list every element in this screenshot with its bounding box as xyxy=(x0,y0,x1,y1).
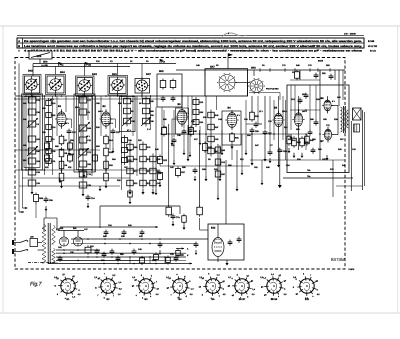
page bottom edge line xyxy=(0,312,400,314)
wire aerial drop xyxy=(32,64,34,77)
trim arrow stage1 xyxy=(27,118,38,128)
wire v237 xyxy=(236,150,238,186)
wire supply risers xyxy=(129,257,131,264)
wire v156 xyxy=(155,107,157,190)
capacitor C44 xyxy=(193,169,198,171)
pentode B4 xyxy=(227,113,237,128)
svg-text:Les tensions sont mesurees au: Les tensions sont mesurees au voltmetre … xyxy=(24,45,362,48)
wire stage2 extra verticals xyxy=(80,96,82,150)
svg-text:140 V: 140 V xyxy=(98,110,104,113)
svg-text:s: s xyxy=(278,295,279,298)
resistor cluster RC3 xyxy=(152,154,154,189)
wire left drop rails xyxy=(18,190,20,212)
wire stage1 extra verticals xyxy=(28,96,30,170)
osc wires left xyxy=(191,96,193,130)
svg-text:50 c/s: 50 c/s xyxy=(370,50,377,53)
right top components xyxy=(314,74,319,76)
ground B1 column xyxy=(61,183,63,186)
ground cluster 2 xyxy=(142,189,144,192)
resistor R9 xyxy=(59,161,64,169)
resistor R10 xyxy=(59,173,64,181)
capacitor Ch2 xyxy=(122,231,127,233)
resistor R69 xyxy=(34,195,39,202)
wire B1 cathode xyxy=(61,158,63,172)
resistor R8 xyxy=(59,149,64,157)
wire B2 drop xyxy=(105,157,107,172)
svg-text:DK7: DK7 xyxy=(146,73,151,76)
stage 2 frame xyxy=(74,94,95,172)
capacitor C96 xyxy=(237,238,242,240)
power junction dots xyxy=(63,249,65,251)
trim arrow stage2 xyxy=(79,122,90,132)
power rails full xyxy=(56,252,186,254)
wire v162 xyxy=(161,107,163,160)
pentode B6 xyxy=(324,100,331,111)
svg-text:45 Ω 2W: 45 Ω 2W xyxy=(368,45,378,48)
wire stage1b verticals xyxy=(44,96,46,175)
tube base diagram B8 B9 xyxy=(267,279,281,293)
svg-text:SK9: SK9 xyxy=(37,55,42,58)
wire aerial bus lower xyxy=(33,66,130,68)
svg-text:P12a: P12a xyxy=(86,64,92,67)
wire htie 150 xyxy=(15,149,100,151)
svg-text:A: A xyxy=(18,40,20,43)
wire stage1 verticals xyxy=(25,96,27,170)
trim arrow L3a xyxy=(78,148,89,158)
resistor R7 xyxy=(59,136,64,144)
feedback network box xyxy=(287,85,349,173)
wire v242 xyxy=(241,134,243,170)
wire long vertical 4 xyxy=(225,160,227,224)
wire v333 drop xyxy=(332,160,334,197)
ground L1 lower xyxy=(31,189,33,192)
tube base diagram B4 xyxy=(173,279,187,293)
wire right rail drop xyxy=(350,121,352,191)
ground R5a xyxy=(183,225,185,228)
resistor R21 xyxy=(170,81,176,88)
resistor cluster RC2 xyxy=(142,142,144,189)
coil chain L1 xyxy=(31,94,33,167)
wire v252 xyxy=(251,96,253,112)
resistor R24 xyxy=(158,173,163,180)
wire B12 feed xyxy=(199,218,201,230)
resistor R27 xyxy=(176,169,181,176)
rotary switch SK6 wafer xyxy=(250,80,263,93)
stage 1 frame xyxy=(22,94,43,170)
ground C95b xyxy=(45,206,47,209)
svg-text:s: s xyxy=(150,295,151,298)
loudspeaker xyxy=(353,108,362,120)
ground R45 xyxy=(293,153,295,156)
wire fb inner xyxy=(290,85,292,110)
wire mid verticals xyxy=(121,96,123,190)
wire htie 110 right xyxy=(290,109,320,111)
IF can DK7 xyxy=(137,80,148,91)
triode B1 xyxy=(57,112,66,126)
flag pennant P2 xyxy=(228,53,233,57)
wire B12 top xyxy=(217,224,219,238)
svg-text:SK5: SK5 xyxy=(159,70,164,73)
capacitor C97 xyxy=(158,243,163,245)
power extra comps xyxy=(102,253,107,255)
resistor R66 xyxy=(85,247,91,253)
svg-text:BX735A: BX735A xyxy=(331,257,346,262)
flag P1a xyxy=(58,62,60,67)
wire osc verticals xyxy=(205,96,207,176)
resistor R5a xyxy=(182,216,187,223)
svg-text:s: s xyxy=(136,294,137,297)
tube base diagram B12 xyxy=(300,279,314,293)
wire can drops xyxy=(31,94,33,97)
output transformer primary xyxy=(341,107,343,132)
svg-text:250 V: 250 V xyxy=(75,106,81,109)
capacitor C12 xyxy=(67,130,72,132)
svg-text:s: s xyxy=(312,295,313,298)
resistor cluster RC1 xyxy=(129,142,131,189)
wire B5 down xyxy=(278,129,280,162)
IF can SK4 box xyxy=(47,76,64,93)
wire heater drop xyxy=(99,206,101,228)
resistor R36 xyxy=(203,144,208,151)
IF can DK7 box xyxy=(135,79,150,94)
svg-text:SK7: SK7 xyxy=(210,65,215,68)
mains plug xyxy=(12,240,14,245)
svg-text:B168: B168 xyxy=(318,60,324,63)
trim arrow can2 xyxy=(50,79,61,90)
capacitor C31 xyxy=(171,97,176,99)
wire long vertical 3 xyxy=(199,130,201,206)
tube base diagram B3 xyxy=(139,279,153,293)
svg-text:P1878: P1878 xyxy=(349,268,356,271)
svg-text:DK3: DK3 xyxy=(92,73,97,76)
svg-text:SK4: SK4 xyxy=(60,71,65,74)
ground R46 xyxy=(301,153,303,156)
svg-text:B 168: B 168 xyxy=(368,40,375,43)
svg-text:m: m xyxy=(54,284,56,287)
svg-text:DK1: DK1 xyxy=(112,73,117,76)
wire htie 170 xyxy=(15,169,160,171)
IF can DK3 xyxy=(79,80,91,92)
wire stage2 verticals xyxy=(78,96,80,172)
capacitor C91 xyxy=(110,250,115,252)
resistor R16 xyxy=(104,161,109,169)
resistor R15 xyxy=(104,148,109,156)
handwritten mark xyxy=(222,33,246,37)
ground cluster 1 xyxy=(129,189,131,192)
wire supply rail 2 xyxy=(56,256,186,258)
wire speaker right xyxy=(362,110,364,190)
wire supply rail 1 xyxy=(56,249,100,251)
coil chain L2 xyxy=(48,98,50,166)
wire B+ rail 239 xyxy=(71,238,208,240)
junction dots bus96 xyxy=(25,95,27,97)
page left edge line xyxy=(2,26,4,313)
junction dots B+ rails xyxy=(87,238,89,240)
mains transformer secondary lower xyxy=(52,248,56,263)
svg-text:De spanningen zijn gemeten met: De spanningen zijn gemeten met een buisv… xyxy=(24,40,362,43)
extra verticals right of B4 xyxy=(231,145,233,160)
speaker terminal block xyxy=(354,124,360,132)
svg-text:140 · 10000: 140 · 10000 xyxy=(344,32,356,35)
wire B5 tops xyxy=(278,96,280,113)
wire DK7 verticals xyxy=(150,96,152,130)
flag P14 xyxy=(159,59,161,64)
wire top right bus xyxy=(176,69,345,71)
wire long vertical r xyxy=(319,70,321,160)
capacitor C30 xyxy=(161,97,166,99)
wire htie 178 xyxy=(22,177,130,179)
wire rail 73a xyxy=(283,177,353,179)
wire can feed drops xyxy=(55,67,57,75)
svg-text:4 x 67,5 V 1 2 3 4 5 B1: 4 x 67,5 V 1 2 3 4 5 B1 B2 B3 B4 B5 B6 B… xyxy=(24,50,363,53)
ground cluster 3 xyxy=(152,189,154,192)
resistor R20 xyxy=(160,81,166,88)
tick marks top bus xyxy=(259,68,261,72)
junction dots power2 xyxy=(103,263,105,265)
wire B3 anode up xyxy=(181,96,183,107)
coil chain L3 lower xyxy=(82,168,84,191)
capacitor C14 xyxy=(86,196,91,198)
ground B5 xyxy=(278,162,280,165)
trim arrow can3 xyxy=(79,80,90,91)
capacitor C95 xyxy=(228,241,233,243)
triode B5 xyxy=(274,113,282,126)
ground B4 xyxy=(231,144,233,147)
coil chain L7 xyxy=(145,96,147,127)
IF can DK6 box xyxy=(25,76,40,93)
trim arrow can4 xyxy=(112,80,123,91)
right mid wires xyxy=(269,96,271,150)
ground osc xyxy=(205,176,207,179)
resistor R17 xyxy=(104,173,109,181)
svg-text:140 V: 140 V xyxy=(302,110,308,113)
wire htie 124 mid xyxy=(246,123,262,125)
wire under rotary xyxy=(249,92,280,94)
coil chain osc xyxy=(210,110,212,157)
wire B3 region xyxy=(172,118,177,120)
resistor row mid1 xyxy=(45,143,50,149)
ground R24 xyxy=(159,182,161,185)
trim arrow L7 xyxy=(141,117,151,126)
IF can DK1 box xyxy=(110,77,127,94)
wire hbus 166 xyxy=(160,165,250,167)
svg-text:m: m xyxy=(95,286,97,289)
tube B12 box xyxy=(208,224,244,260)
resistor R14 xyxy=(104,136,109,144)
svg-text:B12: B12 xyxy=(305,298,310,301)
resistor R60 xyxy=(166,207,172,215)
svg-text:B12: B12 xyxy=(211,226,216,229)
wire v265 xyxy=(264,96,266,129)
notes table cell line xyxy=(22,38,24,48)
wire v285 xyxy=(285,100,287,160)
coil chain L6 xyxy=(124,135,126,165)
ground C44 xyxy=(194,176,196,179)
coil chain L5 xyxy=(126,96,128,127)
capacitor C95b xyxy=(44,198,49,200)
wire hbus 160 xyxy=(250,159,345,161)
wire out rail 186 xyxy=(336,185,363,187)
ground R33 xyxy=(251,160,253,163)
coil chain L3 xyxy=(82,94,84,170)
capacitor C7a xyxy=(171,215,176,217)
stage 3 frame xyxy=(120,97,136,132)
arrow SK6 xyxy=(41,64,48,66)
wire long vertical 2 xyxy=(187,125,189,160)
svg-text:Fig.7: Fig.7 xyxy=(30,282,43,288)
wire output links xyxy=(332,105,339,107)
schematic dashed border xyxy=(15,58,345,270)
svg-text:185 V: 185 V xyxy=(64,122,70,125)
ground L3 lower xyxy=(82,191,84,194)
feedback box inner extras xyxy=(298,99,303,101)
mains cable dashdot xyxy=(28,262,58,264)
rotary switch SK7 wafer xyxy=(219,75,235,91)
svg-text:SK6: SK6 xyxy=(43,60,48,63)
resistor row mid2 xyxy=(45,155,50,161)
ground C7a xyxy=(172,221,174,224)
trim arrow can1 xyxy=(26,79,37,90)
band switch box SK5 xyxy=(157,74,182,107)
capacitor C98 xyxy=(194,243,199,245)
capacitor C55 xyxy=(250,129,255,131)
ground left rail xyxy=(99,186,101,189)
pentode B3 box xyxy=(176,108,189,134)
resistor R31 xyxy=(230,134,235,142)
coil chain L1 lower xyxy=(31,166,33,189)
triode B3 xyxy=(177,110,187,125)
ground C14 xyxy=(87,203,89,206)
wire transformer risers xyxy=(43,218,45,231)
ground C84 xyxy=(279,182,281,185)
ground B7 xyxy=(326,155,328,158)
triode B2 xyxy=(101,112,110,126)
svg-text:B6 B7: B6 B7 xyxy=(239,298,246,301)
IF can DK3 box xyxy=(77,78,93,95)
wire supply rail 3 xyxy=(48,263,186,265)
page top edge line xyxy=(0,25,400,27)
resistor R61 xyxy=(197,207,203,215)
mains transformer secondary upper xyxy=(52,225,56,244)
wire long vertical 1 xyxy=(168,124,170,206)
resistor R45 xyxy=(292,138,297,146)
tube base diagram B5 xyxy=(206,279,220,293)
wire C84 drop xyxy=(279,154,281,182)
junction dots bus170 xyxy=(25,169,27,171)
resistor R46 xyxy=(300,138,305,146)
resistor R41 xyxy=(287,136,292,144)
ground lv2 xyxy=(187,156,189,159)
ground B12 xyxy=(226,260,228,263)
wire heater rail xyxy=(100,205,180,207)
wire mains link xyxy=(38,242,43,244)
trim arrow L1a xyxy=(27,146,38,156)
wire xfmr top link xyxy=(35,203,37,218)
capacitor C90 xyxy=(95,250,100,252)
capacitor C63 xyxy=(311,149,316,151)
ground R70 xyxy=(129,199,131,202)
resistor R23 xyxy=(158,157,163,164)
flag P12a xyxy=(84,62,86,67)
IF can SK4 xyxy=(50,79,62,91)
notes table divider xyxy=(17,42,364,44)
capacitor C84 xyxy=(277,149,282,151)
pentode B7 xyxy=(324,129,331,140)
svg-text:s: s xyxy=(219,295,220,298)
power comps 2 xyxy=(174,257,179,259)
resistor R42 xyxy=(305,136,310,144)
rectifier B10 xyxy=(59,237,68,246)
wire hbus 96 xyxy=(15,95,205,97)
resistor R70 xyxy=(128,191,133,197)
power extra rails xyxy=(56,252,140,254)
capacitor Ch3 xyxy=(140,231,145,233)
wire v258 xyxy=(257,96,259,124)
capacitor C40 xyxy=(188,129,193,131)
mains transformer core xyxy=(47,223,49,264)
capacitor C22 xyxy=(111,130,116,132)
wire v246 xyxy=(245,100,247,150)
wire B+ rail 243 xyxy=(71,243,196,245)
wire rotary link xyxy=(235,82,250,84)
mains switch xyxy=(20,240,27,243)
svg-text:B8 B9: B8 B9 xyxy=(271,298,278,301)
voltage selector xyxy=(30,239,38,247)
aerial trimmer box SK9 xyxy=(29,51,52,59)
capacitor Ch1 xyxy=(104,231,109,233)
wire rect top xyxy=(58,230,84,232)
svg-text:140 V: 140 V xyxy=(108,122,114,125)
wire htie 186 xyxy=(19,185,120,187)
wire v262 xyxy=(261,160,263,180)
tube base diagram B6 B7 xyxy=(235,279,249,293)
trim arrow L5 xyxy=(122,117,132,126)
capacitor C57 xyxy=(263,131,268,133)
tuning indicator B12 xyxy=(212,238,224,257)
wire B1 aux xyxy=(66,118,72,120)
mains transformer primary xyxy=(42,224,46,263)
IF can DK6 xyxy=(26,79,37,90)
output transformer core xyxy=(343,106,345,133)
ground C57 xyxy=(264,156,266,159)
ground B2 column xyxy=(105,183,107,186)
tube base diagram B2 xyxy=(101,279,115,293)
page right edge line xyxy=(397,26,399,313)
svg-text:P16 P13 R50: P16 P13 R50 xyxy=(266,87,279,90)
wire aerial bus upper xyxy=(33,63,176,65)
wire B+ risers top right xyxy=(338,70,340,106)
osc chain left xyxy=(195,97,197,127)
mid components A xyxy=(162,128,167,135)
wire hbus 99 xyxy=(15,98,160,100)
resistor ladder R37-39 xyxy=(217,144,219,180)
rectifier B11 xyxy=(73,237,82,246)
svg-text:SK6: SK6 xyxy=(251,66,256,69)
tube base diagram B1 xyxy=(61,279,75,293)
output transformer secondary xyxy=(347,110,349,128)
resistor R33 xyxy=(250,112,255,120)
triode B5b xyxy=(294,113,302,126)
notes table frame xyxy=(17,38,364,48)
pentode B4 box xyxy=(222,111,241,145)
wire hbus 134 xyxy=(160,133,305,135)
wire top right bus drops xyxy=(204,70,206,76)
svg-text:DK6: DK6 xyxy=(28,69,33,72)
IF can DK1 xyxy=(112,79,123,90)
mid wires A xyxy=(163,110,165,127)
wire heater rail 2 xyxy=(60,226,152,228)
switch box SK7 xyxy=(205,69,248,96)
